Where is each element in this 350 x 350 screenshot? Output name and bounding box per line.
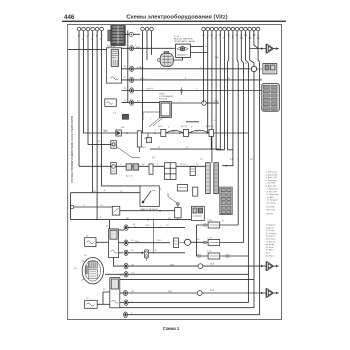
wires row B [143,31,152,133]
svg-text:3. Датч. ОЖ: 3. Датч. ОЖ [266,177,277,179]
ECU box U1 [107,48,122,83]
svg-text:20. Масса: 20. Масса [266,255,276,257]
fuse F6 [208,240,220,246]
svg-text:WR: WR [252,34,254,38]
svg-text:G: G [124,100,126,102]
fuse branch labels [207,219,212,253]
svg-text:ЕFI 15: ЕFI 15 [181,126,188,128]
inline connector N4 [197,291,202,296]
diode D1 [116,130,122,136]
pin tick labels row C vertical [202,34,259,38]
pin labels row C [202,34,260,40]
bottom long wires [120,266,266,315]
wire crank to coil [97,292,110,304]
fuse row wire [96,122,248,150]
svg-text:АМ2 30: АМ2 30 [206,125,214,128]
svg-text:W-R: W-R [140,78,145,80]
svg-text:7. Датчик О2: 7. Датчик О2 [267,189,280,191]
fuse labels [144,125,214,140]
relay K1 top-right [256,64,277,74]
second row wire y166 [79,165,206,167]
svg-text:Схемы электрооборудования (Vit: Схемы электрооборудования (Vitz) [126,14,227,21]
mid wire y149 [150,148,225,151]
ignition coil T1 [176,44,191,57]
svg-text:ТА-ЕМР: ТА-ЕМР [107,45,116,48]
svg-text:W-B: W-B [210,264,215,266]
svg-text:12. Свечи: 12. Свечи [267,203,276,205]
fuse F7 [208,253,220,259]
connector block X1 (dark) [108,26,140,46]
junction circle N2 [179,239,191,245]
relay K3 [191,206,204,220]
svg-text:W-В: W-В [170,264,175,266]
svg-text:СИСТЕМА УПРАВЛЕНИЯ ДВИГАТЕЛЕМ: СИСТЕМА УПРАВЛЕНИЯ ДВИГАТЕЛЕМ 1SZ-FE И В… [70,116,74,183]
tall connector pair CP2 [206,163,219,194]
pin tick labels row A vertical [77,34,103,37]
junction box JB2 grid [220,187,232,215]
bottom ring chain [124,263,129,317]
comp E3 [193,187,198,196]
ring chain left x126 [124,225,128,256]
svg-text:Схема 1: Схема 1 [163,326,180,331]
distributor connector P1 [157,51,173,66]
connector row B (3 pins) [141,27,154,31]
svg-text:5. Кл. ЕGR: 5. Кл. ЕGR [266,183,277,185]
connector row A (top-left pins) [77,27,103,31]
svg-text:W-В: W-В [168,291,173,293]
relay K2 [177,185,187,191]
sensor S1 [111,141,140,158]
scattered wire labels [83,67,231,315]
svg-text:С 1В: С 1В [207,238,212,240]
svg-text:В-W: В-W [137,67,141,69]
coil box T3 [110,278,120,308]
svg-text:L-W: L-W [92,191,96,193]
ground arrow A1 top-right [250,44,279,53]
svg-text:8. Реле ЕFI: 8. Реле ЕFI [267,191,278,193]
ground arrow A2 [261,262,279,271]
wire group: top-left pin drops [78,31,80,166]
svg-text:18. Реле: 18. Реле [266,247,275,249]
ground arrow A3 [261,288,279,297]
svg-text:скорости: скорости [266,227,274,229]
svg-text:446: 446 [64,14,75,21]
relay box K4 center [143,87,183,127]
inline fuse E4 [173,238,178,247]
svg-text:ВПУСКА: ВПУСКА [159,98,168,101]
grommet G1..G5 [130,46,134,105]
sensor S3 [168,193,181,220]
svg-text:А 15: А 15 [158,125,163,128]
wire y207 [71,193,192,221]
svg-text:(19) Я2: (19) Я2 [266,214,274,216]
relay K4 label [159,94,174,101]
svg-text:Р-В: Р-В [157,240,161,242]
pin labels row A [78,34,103,41]
svg-text:17. Датчик: 17. Датчик [266,241,276,243]
svg-text:W-B: W-B [210,290,215,292]
sensor row y207 ring [70,205,73,208]
inline connector N3 [198,264,203,269]
svg-text:С 1С: С 1С [207,251,212,253]
O2 sensor B2 [85,236,96,247]
wires from O2 to coil box [96,230,124,253]
wire coil to P1 [173,47,207,61]
three fuse branches [191,225,249,256]
svg-text:LW: LW [206,34,208,37]
svg-text:распредв.: распредв. [266,244,276,246]
node circle N5 [172,101,220,105]
svg-text:ВЫСОК. НАПРЯЖ.: ВЫСОК. НАПРЯЖ. [174,38,194,41]
instrument oval M1 [74,258,104,284]
svg-text:ТОYОТА: ТОYОТА [266,206,275,209]
legend text block right upper [266,172,280,216]
sensor S2 [111,163,117,174]
svg-text:коленвала: коленвала [266,239,277,241]
small dark comp E1 [113,113,129,120]
svg-text:15. Стартер: 15. Стартер [266,233,278,235]
ignition coil box T2 [109,220,119,258]
svg-text:С 1А: С 1А [207,219,212,222]
switch box SW1 [112,206,120,215]
svg-text:А-Г 22: А-Г 22 [126,175,133,178]
fuse F5 [208,222,220,228]
svg-text:SТА: SТА [214,100,218,103]
svg-text:ВW: ВW [240,34,242,37]
svg-text:LG: LG [150,88,153,90]
svg-text:B-R: B-R [136,47,140,49]
svg-text:10. АКБ: 10. АКБ [267,196,275,199]
svg-text:11. Катушки: 11. Катушки [267,200,278,202]
junction block JB1 (2x3) [164,163,176,180]
wires row C drops [204,31,260,315]
svg-text:6. Датч. дет.: 6. Датч. дет. [266,186,278,188]
fuse F2 [184,130,189,137]
svg-text:1. ЭБУ дв-ля: 1. ЭБУ дв-ля [266,172,278,174]
trunk wire from X1 [121,31,261,104]
crank sensor B3 [85,298,98,308]
legend text block right lower [259,225,278,264]
svg-text:GW: GW [227,34,229,38]
svg-text:АМ: АМ [172,130,175,133]
fuse F3 [209,130,214,137]
connector row C (14 pins) [202,27,260,31]
inline connector marks [198,224,230,257]
svg-text:блок: блок [266,253,270,255]
inline connector x146 [142,220,154,261]
header rule [62,21,286,22]
svg-text:2. Датчик ДЗ: 2. Датчик ДЗ [266,174,279,176]
wire labels bottom [210,264,215,293]
fuse F4 [149,164,153,174]
svg-text:9. Замок заж.: 9. Замок заж. [267,194,280,196]
misc top labels [84,45,262,291]
ring left feeds [105,258,124,303]
svg-text:VІТZ 1SZ: VІТZ 1SZ [266,209,275,211]
svg-text:4. Форсунки: 4. Форсунки [266,179,277,182]
wires right from rings [128,228,185,253]
svg-text:14. Генер.: 14. Генер. [266,230,276,232]
svg-text:В-У: В-У [146,225,150,227]
svg-text:Y-G: Y-G [131,273,135,275]
long wire y192.7 [71,192,141,194]
svg-text:GО: GО [210,34,212,38]
coil label [174,36,195,43]
comp E2 [190,167,195,176]
connector block X2 right [262,84,280,112]
svg-text:16. Датчик: 16. Датчик [266,236,276,238]
wire frame to ECU [68,49,107,51]
fuse F1 [161,130,166,137]
sensor box B1 (wavy) [105,99,117,107]
resistor R1 [137,131,141,152]
connector pair CP1 [126,164,139,170]
svg-text:19. Монт.: 19. Монт. [266,250,275,252]
svg-text:13. Датчик: 13. Датчик [266,225,276,227]
small comp under fuse row [146,133,151,143]
svg-text:W-G: W-G [135,241,140,243]
diagram frame [68,25,282,320]
junction circle N1 [251,66,256,71]
svg-text:ПРОВОДА И СВЕЧИ: ПРОВОДА И СВЕЧИ [174,40,195,43]
diagnostic box DLC1 [140,186,159,207]
svg-text:W: W [158,147,160,149]
